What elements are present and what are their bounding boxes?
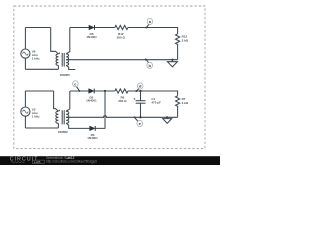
svg-text:1 kHz: 1 kHz	[32, 115, 40, 119]
wire secondary top rail	[70, 90, 89, 92]
wire primary bottom rail	[25, 68, 58, 70]
resistor R13	[176, 34, 180, 60]
wire primary top rail	[25, 27, 50, 29]
wire D3 cathode riser	[95, 91, 105, 128]
node junction D3 join	[104, 90, 106, 92]
svg-text:1N4001: 1N4001	[86, 35, 97, 39]
svg-text:XFMR2: XFMR2	[58, 130, 68, 134]
wire secondary center tap rail	[66, 59, 177, 61]
diode D2	[89, 89, 94, 94]
resistor R12	[115, 25, 128, 29]
probe d	[135, 83, 143, 92]
node junction C1 top	[139, 90, 141, 92]
probe c	[73, 81, 81, 92]
svg-text:300 Ω: 300 Ω	[117, 35, 126, 39]
svg-text:470 µF: 470 µF	[151, 100, 161, 104]
probe a	[145, 18, 152, 28]
wire source bottom riser	[24, 58, 26, 69]
wire primary bottom rail	[25, 127, 58, 129]
wire source top riser	[24, 91, 26, 107]
capacitor C1	[134, 91, 146, 117]
footer bar	[0, 156, 220, 165]
wire secondary top rail to diode	[70, 27, 89, 29]
ground G2	[163, 116, 172, 123]
svg-text:1N4001: 1N4001	[86, 99, 97, 103]
svg-text:XFMR5: XFMR5	[60, 73, 70, 77]
svg-text:LAB: LAB	[34, 160, 41, 164]
resistor R7	[176, 96, 180, 118]
svg-text:3 kΩ: 3 kΩ	[182, 101, 189, 105]
wire R6 to corner	[128, 91, 178, 96]
transformer XFMR2	[54, 91, 70, 128]
schematic dashed frame	[14, 6, 205, 149]
wire D2 to junction and R6	[94, 90, 115, 92]
node junction C1 bottom	[139, 116, 141, 118]
wire center tap rail with hop	[66, 116, 177, 118]
wire source top riser	[24, 28, 26, 50]
wire source bottom riser	[24, 116, 26, 128]
svg-text:1 kHz: 1 kHz	[32, 57, 40, 61]
diode D6	[89, 25, 94, 30]
voltage source V3	[21, 107, 30, 116]
resistor R6	[115, 89, 128, 93]
probe e	[134, 116, 143, 126]
svg-text:http://circuitlab.com/c/34ae75: http://circuitlab.com/c/34ae75b3jgy5	[46, 160, 97, 164]
probe b	[145, 59, 153, 69]
wire D3 rail from secondary bottom	[70, 127, 90, 129]
svg-text:300 Ω: 300 Ω	[118, 99, 127, 103]
svg-text:1N4001: 1N4001	[87, 136, 98, 140]
wire diode to resistor	[95, 27, 115, 29]
voltage source V6	[21, 49, 30, 58]
transformer XFMR5	[51, 28, 76, 70]
wire primary top rail	[25, 90, 53, 92]
wire resistor to corner	[128, 28, 178, 34]
ground G1	[167, 59, 177, 67]
svg-text:3 kΩ: 3 kΩ	[182, 38, 189, 42]
diode D3	[90, 126, 95, 131]
